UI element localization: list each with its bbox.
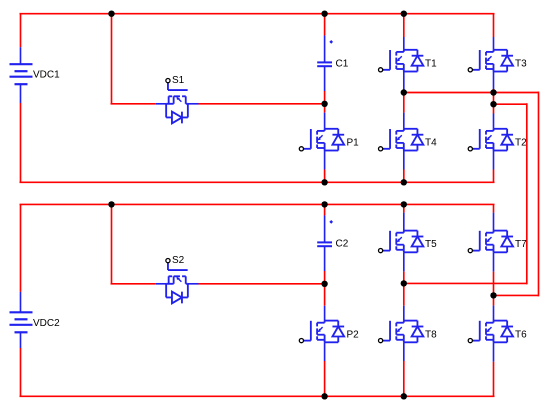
wire: between output nodes (red) — [493, 93, 495, 105]
wire: VDC1 bottom lead (blue) — [20, 84, 22, 103]
wire: T1 drain lead (blue) — [403, 37, 405, 50]
wire: T7 source lead (blue) — [493, 252, 495, 271]
node: T7-T6 midpoint — [490, 292, 496, 298]
wire: circuit-1 left rail upper segment (red) — [20, 14, 22, 48]
wire: P1 source lead (blue) — [324, 151, 326, 170]
wire: S2 to node B — [199, 283, 325, 285]
capacitor C1 — [317, 62, 332, 66]
svg-text:T3: T3 — [515, 59, 527, 70]
transistor T1 — [379, 50, 424, 72]
transistor S2 — [166, 259, 188, 304]
wire: midpoint link T1-T3 row — [404, 92, 494, 94]
wire: P2 to bottom rail (red) — [324, 361, 326, 396]
wire: inner output loop bottom — [404, 282, 527, 284]
transistor P2 — [299, 321, 344, 343]
node B: C2-P2-S2 junction — [321, 281, 327, 287]
wire: leg-A2 top stub (red) — [324, 204, 326, 215]
node: bottom rail / P1 — [321, 179, 327, 185]
transistor T8 — [379, 321, 424, 343]
wire: T1 source lead (blue) — [403, 72, 405, 93]
svg-text:T7: T7 — [515, 239, 527, 250]
wire: outer output loop bottom — [494, 294, 539, 296]
wire: T2 to bottom rail (red) — [493, 170, 495, 183]
svg-text:C2: C2 — [336, 239, 349, 250]
wire: T4 source lead (blue) — [403, 151, 405, 170]
wire: C2 to node B (red) — [324, 271, 326, 284]
wire: T5 drain lead (blue) — [403, 213, 405, 231]
wire: T3 to upper output node (red) — [493, 89, 495, 93]
wire: circuit-2 left rail upper segment (red) — [20, 204, 22, 292]
battery VDC2 — [10, 312, 33, 332]
wire: node to T6 (red) — [493, 295, 495, 305]
wire: T8 drain lead (blue) — [403, 306, 405, 321]
svg-text:T6: T6 — [515, 329, 527, 340]
svg-text:S2: S2 — [172, 255, 185, 266]
wire: VDC2 top lead (blue) — [20, 292, 22, 312]
svg-text:P2: P2 — [347, 329, 360, 340]
wire: leg-C top stub (red) — [493, 14, 495, 37]
wire: circuit-1 bottom rail — [20, 181, 495, 183]
wire: node to T4 (red) — [403, 93, 405, 113]
wire: inner output loop top — [494, 103, 527, 105]
node: T3-T2 upper output — [490, 89, 496, 95]
node: circuit-2 top rail / S2 branch — [108, 201, 114, 207]
wire: T2 drain lead (blue) — [493, 114, 495, 129]
capacitor C2 polarity mark — [329, 220, 333, 224]
wire: node to T8 (red) — [403, 283, 405, 305]
transistor T7 — [468, 231, 513, 253]
svg-text:T5: T5 — [425, 239, 437, 250]
node: T5-T8 midpoint — [401, 280, 407, 286]
wire: S2 right lead (blue) — [188, 283, 199, 285]
wire: T4 to bottom rail (red) — [403, 170, 405, 183]
transistor T3 — [468, 50, 513, 72]
wire: leg-B top stub (red) — [403, 14, 405, 37]
wire: S1 to node A — [199, 103, 325, 105]
wire: leg-A top stub (red) — [324, 14, 326, 36]
node: top rail / C1 — [321, 11, 327, 17]
node A: C1-P1-S1 junction — [321, 101, 327, 107]
wire: T7 to lower output node (red) — [493, 272, 495, 296]
svg-text:C1: C1 — [336, 59, 349, 70]
wire: T4 drain lead (blue) — [403, 113, 405, 129]
node: top rail / T1 — [401, 11, 407, 17]
wire: T6 to bottom rail (red) — [493, 362, 495, 397]
wire: circuit-1 top rail — [20, 13, 495, 15]
svg-text:S1: S1 — [172, 75, 185, 86]
battery VDC1 — [10, 64, 33, 84]
wire: S1 branch vertical — [111, 14, 113, 104]
node: T1-T4 midpoint — [401, 89, 407, 95]
transistor T2 — [468, 129, 513, 151]
node: bottom rail / T4 — [401, 179, 407, 185]
wire: T6 source lead (blue) — [493, 342, 495, 362]
transistor T5 — [379, 231, 424, 253]
wire: leg-C2 top stub (red) — [493, 204, 495, 212]
wire: outer output loop vertical — [538, 92, 540, 297]
wire: P2 source lead (blue) — [324, 342, 326, 361]
wire: T5 to midpoint node (red) — [403, 272, 405, 284]
wire: T6 drain lead (blue) — [493, 306, 495, 321]
wire: circuit-2 bottom rail — [20, 395, 495, 397]
transistor T4 — [379, 129, 424, 151]
node: circuit-2 bottom rail / T8 — [401, 393, 407, 399]
wire: C2 top lead (blue) — [324, 216, 326, 243]
wire: T8 to bottom rail (red) — [403, 361, 405, 396]
wire: T7 drain lead (blue) — [493, 213, 495, 231]
wire: VDC1 top lead (blue) — [20, 47, 22, 64]
svg-text:P1: P1 — [347, 138, 360, 149]
wire: node B to P2 (red) — [324, 284, 326, 306]
wire: S1 left lead (blue) — [156, 103, 166, 105]
wire: T8 source lead (blue) — [403, 342, 405, 361]
svg-text:T4: T4 — [425, 138, 437, 149]
wire: T2 source lead (blue) — [493, 151, 495, 170]
node: circuit-2 top rail / T5 — [401, 201, 407, 207]
wire: inner output loop vertical — [526, 103, 528, 284]
wire: C2 bottom lead (blue) — [324, 246, 326, 271]
wire: circuit-1 left rail lower segment (red) — [20, 103, 22, 182]
wire: S2 branch horizontal left — [111, 283, 156, 285]
wire: circuit-2 top rail — [20, 203, 495, 205]
wire: C1 to node A (red) — [324, 91, 326, 104]
wire: S2 branch vertical — [111, 204, 113, 283]
node: circuit-2 top rail / C2 — [321, 201, 327, 207]
wire: node A to P1 (red) — [324, 104, 326, 113]
node: T3-T2 lower tap — [490, 101, 496, 107]
transistor S1 — [166, 79, 188, 124]
node: circuit-2 bottom rail / P2 — [321, 393, 327, 399]
capacitor C1 polarity mark — [329, 40, 333, 44]
svg-text:T2: T2 — [515, 138, 527, 149]
wire: C1 top lead (blue) — [324, 36, 326, 63]
capacitor C2 — [317, 242, 332, 246]
wire: node to T2 (red) — [493, 104, 495, 113]
transistor T6 — [468, 321, 513, 343]
wire: T3 source lead (blue) — [493, 72, 495, 90]
wire: S1 branch horizontal left — [111, 103, 156, 105]
wire: P1 to bottom rail (red) — [324, 170, 326, 183]
svg-text:T1: T1 — [425, 59, 437, 70]
wire: T5 source lead (blue) — [403, 252, 405, 271]
wire: P1 drain lead (blue) — [324, 113, 326, 129]
wire: C1 bottom lead (blue) — [324, 66, 326, 91]
svg-text:VDC2: VDC2 — [33, 318, 60, 329]
wire: outer output loop top — [494, 92, 539, 94]
wire: T3 drain lead (blue) — [493, 37, 495, 50]
wire: S2 left lead (blue) — [156, 283, 166, 285]
wire: leg-B2 top stub (red) — [403, 204, 405, 212]
node: top rail / S1 branch — [108, 11, 114, 17]
wire: P2 drain lead (blue) — [324, 306, 326, 321]
wire: VDC2 bottom lead (blue) — [20, 332, 22, 348]
transistor P1 — [299, 129, 344, 151]
svg-text:T8: T8 — [425, 329, 437, 340]
wire: S1 right lead (blue) — [188, 103, 199, 105]
svg-text:VDC1: VDC1 — [33, 70, 60, 81]
wire: circuit-2 left rail lower segment (red) — [20, 348, 22, 396]
